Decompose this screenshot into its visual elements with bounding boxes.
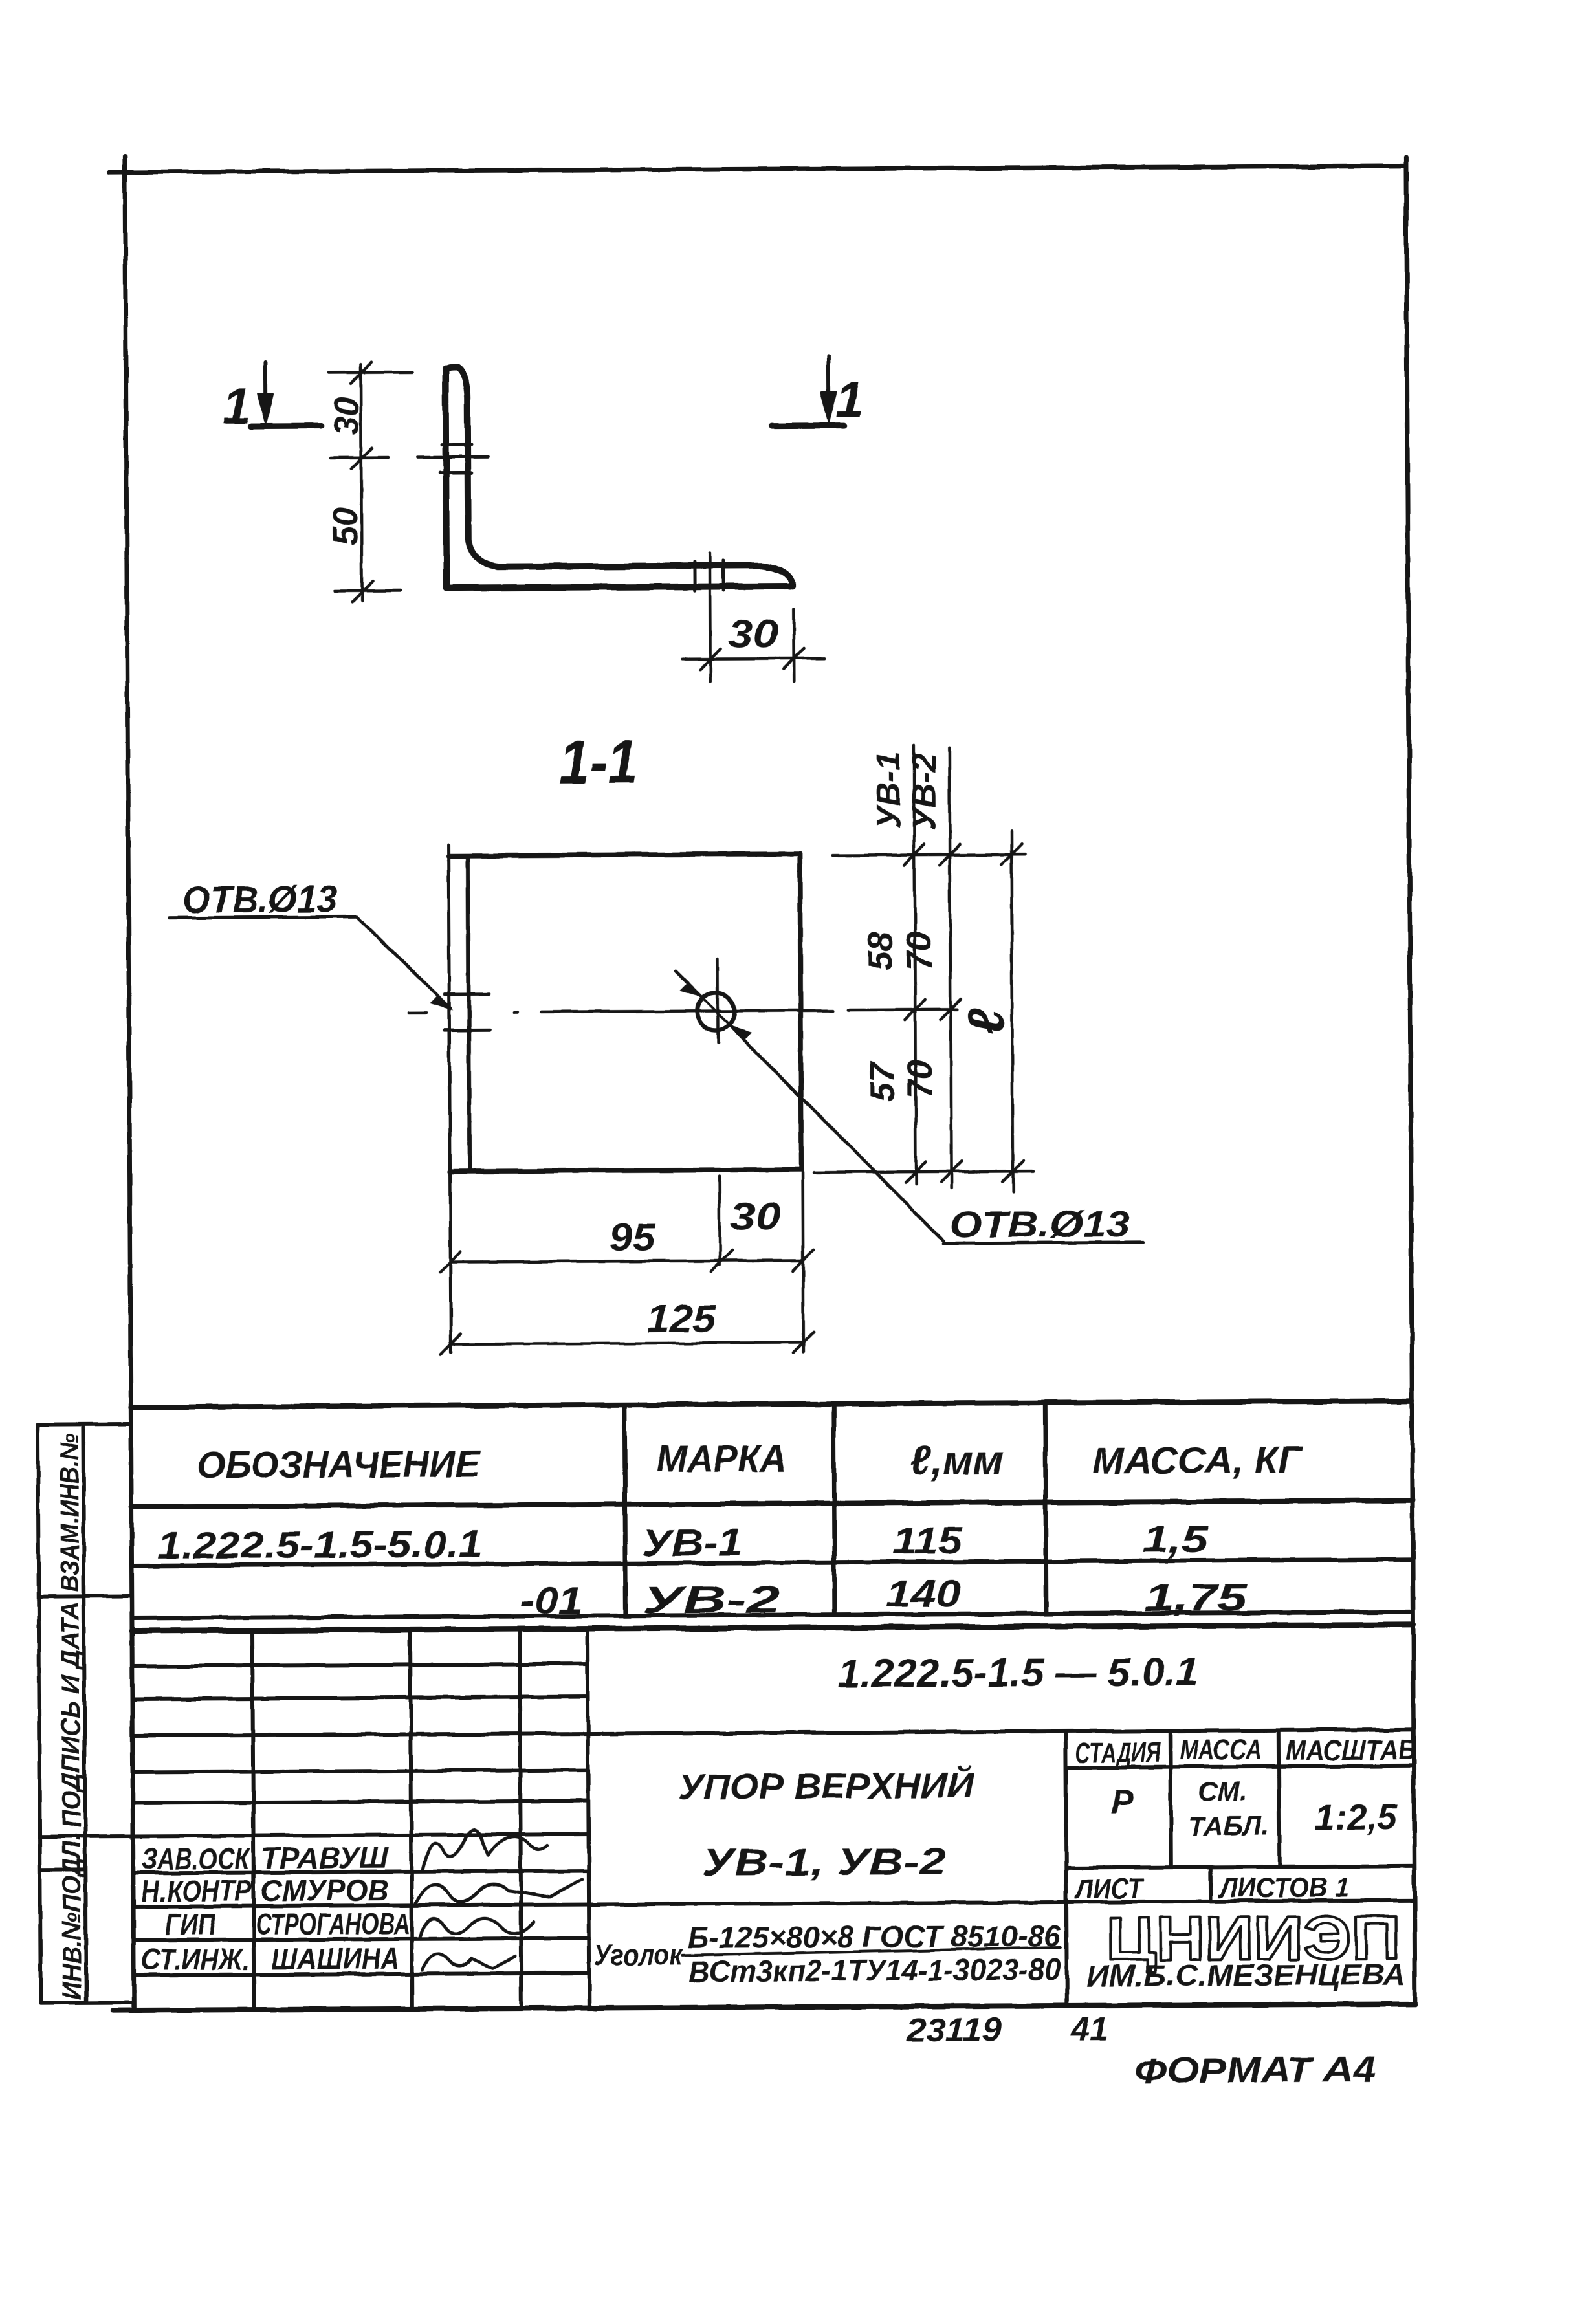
svg-text:СМ.: СМ. [1198,1776,1248,1806]
svg-text:Уголок: Уголок [594,1938,684,1972]
title block vertical lines left part [252,1629,589,2010]
svg-text:ОБОЗНАЧЕНИЕ: ОБОЗНАЧЕНИЕ [197,1443,481,1486]
svg-text:ВСт3кп2-1ТУ14-1-3023-80: ВСт3кп2-1ТУ14-1-3023-80 [688,1953,1061,1988]
bottom dimensions 95 / 30 / 125 [440,1172,814,1355]
svg-text:УВ-1: УВ-1 [642,1522,742,1564]
svg-text:1.222.5-1.5 — 5.0.1: 1.222.5-1.5 — 5.0.1 [837,1650,1198,1696]
svg-text:Р: Р [1111,1783,1134,1821]
svg-text:30: 30 [731,1194,780,1238]
right dimension lines УВ-1 / УВ-2 / l [811,744,1033,1193]
svg-text:ℓ,мм: ℓ,мм [910,1436,1004,1484]
plate bend line [468,855,469,1171]
svg-text:МАССА, КГ: МАССА, КГ [1092,1439,1304,1482]
hole in plate [697,992,734,1030]
bottom dimension 30 of angle [682,553,825,682]
hole edges in horizontal flange [692,562,696,591]
svg-text:МАРКА: МАРКА [657,1438,787,1480]
svg-text:ОТВ.Ø13: ОТВ.Ø13 [949,1203,1130,1245]
plate left extension line [448,846,451,1353]
section marker 1 left: arrow [250,362,321,427]
horizontal centre line [409,1010,957,1013]
svg-text:ФОРМАТ А4: ФОРМАТ А4 [1134,2049,1376,2091]
stamp СТАДИЯ block [1066,1729,1415,2006]
svg-text:УВ-2: УВ-2 [905,753,943,830]
hole edges in vertical flange [442,443,472,446]
svg-text:СТРОГАНОВА: СТРОГАНОВА [256,1907,410,1941]
leader left ОТВ.13 [169,917,451,1010]
svg-text:140: 140 [886,1573,962,1616]
svg-text:ИНВ.№ПОДЛ.: ИНВ.№ПОДЛ. [58,1834,87,1999]
angle profile outer L edge [445,367,791,588]
parts table top line [131,1401,1412,1407]
svg-text:50: 50 [326,507,365,545]
svg-text:Н.КОНТР: Н.КОНТР [141,1874,252,1908]
signature scribbles [415,1829,583,1970]
angle profile inner edge with fillets [445,366,793,588]
svg-text:МАСШТАБ: МАСШТАБ [1286,1734,1416,1766]
parts table row 1 bottom line [132,1559,1413,1566]
hole centre line across vertical flange [417,455,489,459]
svg-text:ШАШИНА: ШАШИНА [271,1942,399,1976]
svg-text:70: 70 [901,1060,940,1099]
parts table bottom line [132,1612,1413,1618]
svg-text:УВ-1: УВ-1 [870,752,908,829]
svg-text:СТ.ИНЖ.: СТ.ИНЖ. [141,1942,250,1977]
title block top double line [132,1612,1413,1618]
parts table column lines [624,1405,626,1616]
svg-text:УВ-1, УВ-2: УВ-1, УВ-2 [702,1841,946,1884]
diameter leader through hole [676,969,1143,1245]
hole edges in side flange (plate view) [445,992,489,996]
sheet frame left border [125,157,134,2010]
svg-text:СТАДИЯ: СТАДИЯ [1075,1737,1161,1769]
section marker 1 right: arrow [771,356,844,426]
title block horizontal lines left part [39,1660,1414,1975]
svg-text:ИМ.Б.С.МЕЗЕНЦЕВА: ИМ.Б.С.МЕЗЕНЦЕВА [1086,1957,1405,1992]
svg-text:1,5: 1,5 [1142,1518,1208,1561]
svg-text:1: 1 [835,371,864,428]
svg-text:УПОР ВЕРХНИЙ: УПОР ВЕРХНИЙ [678,1765,975,1807]
svg-text:ГИП: ГИП [165,1907,216,1941]
svg-text:125: 125 [646,1297,716,1341]
svg-text:ОТВ.Ø13: ОТВ.Ø13 [182,878,336,921]
sheet frame top border [109,166,1406,172]
svg-text:70: 70 [900,932,939,970]
svg-text:ТАБЛ.: ТАБЛ. [1188,1810,1269,1841]
sheet frame bottom border [113,2004,1415,2010]
sheet frame right border [1406,157,1415,2004]
svg-text:30: 30 [728,612,778,655]
svg-text:30: 30 [327,397,366,435]
svg-text:ЗАВ.ОСК: ЗАВ.ОСК [142,1841,251,1876]
svg-text:ЛИСТ: ЛИСТ [1074,1872,1145,1905]
svg-text:23119: 23119 [906,2011,1001,2049]
svg-text:1-1: 1-1 [559,727,638,797]
svg-text:95: 95 [609,1216,657,1259]
svg-text:ЛИСТОВ 1: ЛИСТОВ 1 [1218,1872,1350,1904]
svg-text:МАССА: МАССА [1180,1733,1262,1766]
svg-text:57: 57 [863,1060,902,1101]
svg-text:1: 1 [223,377,251,434]
plate outline [448,854,801,1172]
sidebar frame [38,1424,133,2003]
svg-text:1:2,5: 1:2,5 [1314,1796,1398,1837]
svg-text:ТРАВУШ: ТРАВУШ [261,1841,390,1875]
hole vertical centre line [716,959,720,1044]
svg-text:СМУРОВ: СМУРОВ [261,1873,389,1907]
svg-text:41: 41 [1070,2011,1108,2048]
vertical dimension line 30/50 [328,362,413,602]
svg-text:ℓ: ℓ [957,1007,1015,1035]
svg-text:1.222.5-1.5-5.0.1: 1.222.5-1.5-5.0.1 [157,1523,482,1566]
svg-text:ВЗАМ.ИНВ.№: ВЗАМ.ИНВ.№ [56,1433,85,1592]
svg-text:ПОДПИСЬ И ДАТА: ПОДПИСЬ И ДАТА [56,1601,86,1828]
material fraction bar [682,1947,1061,1955]
svg-text:58: 58 [861,932,900,970]
parts table header bottom line [131,1500,1413,1507]
svg-text:115: 115 [892,1520,963,1562]
